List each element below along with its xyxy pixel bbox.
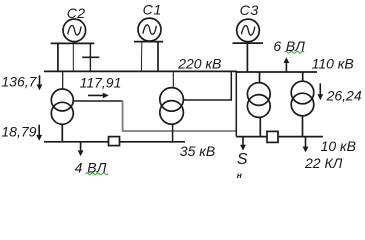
svg-text:6 ВЛ: 6 ВЛ	[273, 38, 305, 54]
svg-text:117,91: 117,91	[80, 75, 122, 91]
bus 35 kV	[44, 141, 185, 143]
svg-text:10 кВ: 10 кВ	[321, 138, 356, 154]
switch square on 35 kV bus	[109, 137, 120, 146]
C1 terminal bar	[134, 41, 163, 43]
bus 110 kV	[237, 71, 318, 73]
wire T4 HV lead	[302, 72, 304, 81]
flow arrow 26,24 down	[317, 83, 323, 100]
wire T3 LV lead	[259, 117, 261, 136]
wire T2 HV lead	[172, 71, 174, 87]
spellcheck squiggle under 4 VL	[86, 173, 108, 175]
svg-text:C1: C1	[143, 2, 163, 18]
svg-text:22 КЛ: 22 КЛ	[304, 155, 343, 171]
load arrow S down	[240, 137, 246, 151]
svg-text:4 ВЛ: 4 ВЛ	[75, 160, 107, 176]
disconnector tick on C2 right branch	[82, 56, 99, 58]
load arrow 4 VL down	[78, 142, 84, 156]
tie wire (gray)	[123, 101, 237, 131]
svg-text:S: S	[237, 151, 248, 168]
wire T2 LV lead	[172, 124, 174, 142]
wire 110 bus to 10 kV bus	[235, 72, 237, 137]
switch square on 10 kV bus	[267, 131, 278, 142]
wire T4 LV lead	[302, 116, 304, 137]
wire C2 right branch	[89, 43, 91, 71]
svg-text:136,7: 136,7	[1, 74, 37, 90]
wire C2 middle stem	[72, 43, 74, 71]
svg-text:35 кВ: 35 кВ	[180, 143, 215, 159]
flow arrow 18,79 down	[36, 125, 42, 141]
svg-text:110 кВ: 110 кВ	[312, 55, 354, 71]
transformer T1 (left, 220/35)	[51, 89, 73, 124]
wire T1 HV lead	[62, 71, 64, 89]
load arrow 22 KL down	[303, 137, 309, 153]
C3 terminal bar	[233, 42, 264, 44]
transformer T3 (110/10 left)	[247, 83, 270, 118]
C2 terminal bar	[51, 42, 95, 44]
generator C2	[63, 19, 86, 42]
bus 10 kV	[236, 136, 323, 138]
wire T1 LV lead	[61, 124, 63, 142]
transformer T2 (middle, 220/35)	[160, 88, 184, 125]
svg-text:26,24: 26,24	[326, 87, 362, 103]
svg-text:C2: C2	[67, 5, 86, 21]
wire C2 left branch	[57, 43, 59, 71]
bus 220 kV	[44, 70, 237, 72]
svg-text:C3: C3	[240, 2, 260, 18]
wire C1 left branch	[140, 42, 142, 72]
svg-text:220 кВ: 220 кВ	[177, 55, 221, 71]
flow arrow 136,7 down	[37, 75, 43, 90]
load arrow 6 VL up	[284, 57, 290, 71]
spellcheck squiggle under 6 VL	[285, 51, 305, 53]
flow arrow 117,91 right	[88, 93, 109, 99]
generator C3	[237, 19, 260, 42]
wire T1 tap to tie	[73, 100, 123, 102]
svg-text:18,79: 18,79	[1, 123, 36, 139]
transformer T4 (110/10 right)	[291, 81, 314, 116]
wire C1 right branch	[157, 42, 159, 72]
wire C3 stem	[246, 43, 248, 72]
wire T2 tap to 220 bus	[183, 71, 231, 100]
generator C1	[138, 18, 161, 41]
wire T3 HV lead	[259, 72, 261, 83]
svg-text:н: н	[237, 170, 242, 180]
